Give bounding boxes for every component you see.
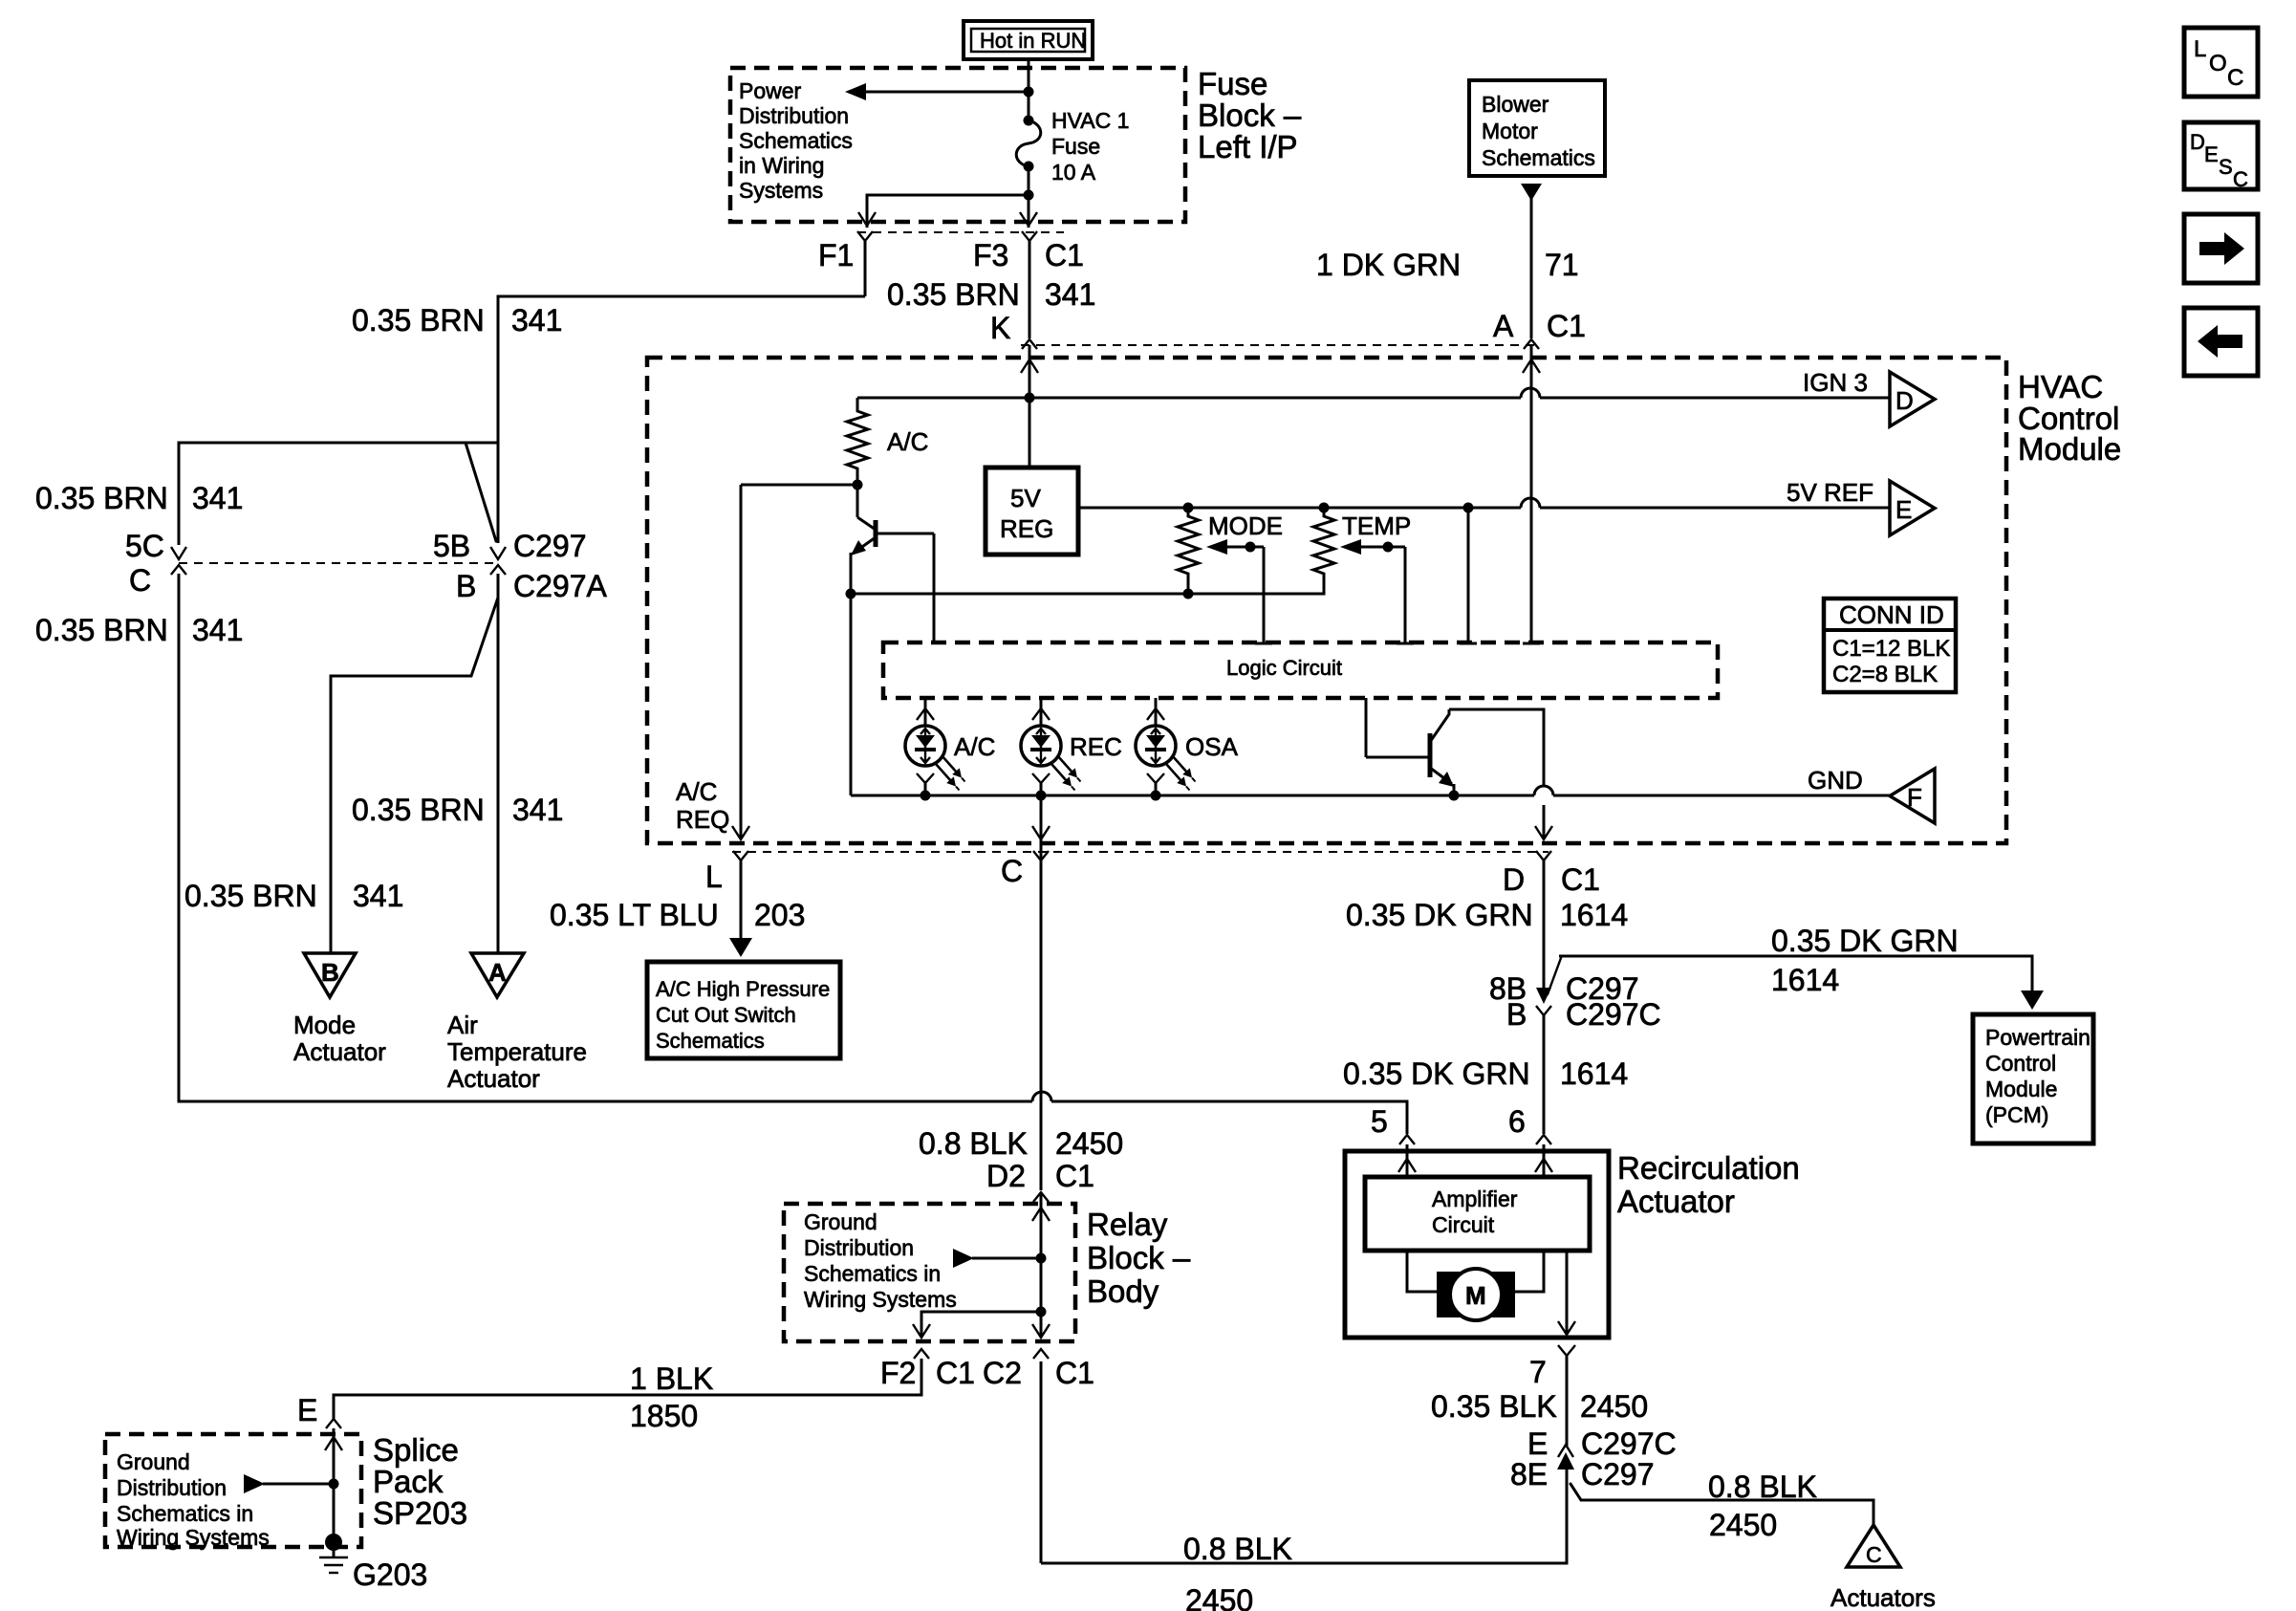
arrow into relay block [1032, 1208, 1050, 1221]
svg-text:L: L [2194, 36, 2206, 62]
svg-text:Cut Out Switch: Cut Out Switch [656, 1003, 796, 1027]
svg-text:A: A [488, 958, 507, 987]
LED REC [1021, 698, 1122, 795]
node junction on K wire [1025, 393, 1035, 403]
svg-text:Schematics: Schematics [739, 128, 853, 153]
svg-text:F3: F3 [973, 238, 1008, 272]
label Recirculation Actuator [1617, 1150, 1800, 1219]
wiper TEMP [1340, 539, 1414, 643]
svg-text:C2: C2 [983, 1356, 1022, 1390]
svg-text:Schematics in: Schematics in [117, 1501, 253, 1526]
pin D / C1 [1503, 851, 1600, 897]
svg-text:F2: F2 [880, 1356, 916, 1390]
arrow K wire entering module [1021, 359, 1038, 373]
svg-text:B: B [456, 569, 476, 603]
connector face C1 (thin dashed) [857, 231, 1064, 233]
transistor Q2 (output driver) [1366, 698, 1544, 795]
svg-text:Air: Air [447, 1011, 478, 1039]
pin C2 / C1 [983, 1349, 1094, 1390]
resistor MODE [1178, 503, 1283, 595]
svg-text:Relay: Relay [1087, 1207, 1168, 1242]
node 5V REG box [986, 468, 1078, 555]
svg-text:A/C High Pressure: A/C High Pressure [656, 977, 830, 1001]
wire 5V REF [1078, 507, 1521, 510]
svg-text:Actuator: Actuator [1617, 1184, 1735, 1219]
relay block dashed box [784, 1204, 1075, 1341]
wire into splice with arrow [325, 1428, 342, 1544]
svg-text:2450: 2450 [1055, 1126, 1123, 1161]
svg-text:0.35 LT BLU: 0.35 LT BLU [550, 898, 719, 932]
wire 5 into amplifier [1398, 1144, 1416, 1177]
svg-text:D: D [2190, 130, 2205, 154]
svg-text:Splice: Splice [373, 1432, 459, 1468]
svg-text:Left I/P: Left I/P [1198, 129, 1298, 164]
svg-text:Pack: Pack [373, 1464, 444, 1499]
svg-text:2450: 2450 [1185, 1583, 1253, 1611]
label 0.35 BRN 341 (F3 wire) [887, 277, 1095, 312]
resistor A/C [847, 398, 928, 485]
pin K chevron [1022, 339, 1037, 349]
wire through relay block [1040, 1192, 1043, 1338]
svg-text:Module: Module [1985, 1077, 2057, 1101]
svg-text:Wiring Systems: Wiring Systems [117, 1525, 270, 1550]
svg-text:B: B [321, 958, 339, 987]
svg-text:L: L [705, 860, 723, 894]
svg-text:Powertrain: Powertrain [1985, 1025, 2090, 1050]
svg-text:Control: Control [1985, 1051, 2056, 1076]
arrow F2 exit [913, 1324, 930, 1338]
svg-text:Hot in RUN: Hot in RUN [980, 29, 1086, 53]
svg-text:5V REF: 5V REF [1787, 478, 1874, 507]
arrow into A/C HP switch box [729, 938, 752, 957]
label 0.35 BRN 341 (B wire) [184, 879, 403, 913]
pin L [705, 851, 748, 894]
svg-text:1614: 1614 [1560, 898, 1628, 932]
wire diagonal into 5B [466, 443, 496, 541]
svg-text:CONN ID: CONN ID [1839, 600, 1944, 629]
wire F1 to 5B [498, 296, 865, 543]
svg-text:Block –: Block – [1087, 1240, 1191, 1275]
pin F3 / C1 [973, 231, 1084, 338]
svg-text:GND: GND [1808, 766, 1863, 795]
LED OSA [1136, 698, 1239, 795]
svg-text:K: K [990, 311, 1010, 345]
svg-text:C1: C1 [1561, 862, 1600, 897]
svg-text:5V: 5V [1010, 484, 1041, 512]
svg-text:C297: C297 [1581, 1457, 1655, 1491]
pin 5 [1371, 1104, 1415, 1144]
svg-text:A/C: A/C [887, 427, 928, 456]
node junction (A/C REQ tap) [853, 480, 863, 490]
arrow C exit [1032, 826, 1050, 839]
svg-text:2450: 2450 [1580, 1389, 1648, 1424]
pin 7 [1529, 1345, 1575, 1389]
arrow exit F1 [858, 212, 876, 226]
svg-text:Schematics: Schematics [1482, 145, 1595, 170]
svg-text:IGN 3: IGN 3 [1803, 368, 1868, 397]
node junction [1024, 87, 1034, 98]
label Relay Block - Body [1087, 1207, 1191, 1309]
svg-text:Fuse: Fuse [1198, 66, 1267, 101]
wire D output through bus hop [1543, 805, 1546, 838]
wire 5V tap to logic [1460, 503, 1477, 644]
wire 0.35 LT BLU 203 [740, 860, 743, 952]
svg-text:1 DK GRN: 1 DK GRN [1316, 248, 1461, 282]
svg-text:10 A: 10 A [1051, 160, 1096, 185]
wire 1 BLK 1850 (F2 to splice) [334, 1359, 921, 1419]
svg-text:C: C [129, 563, 151, 598]
svg-text:341: 341 [353, 879, 403, 913]
node LOC box [2184, 28, 2258, 97]
node Amplifier Circuit box [1365, 1177, 1590, 1251]
svg-text:F1: F1 [818, 238, 854, 272]
svg-text:5C: 5C [125, 529, 164, 563]
node junction (emitter / MODE-TEMP return) [846, 589, 856, 599]
svg-text:C1: C1 [1055, 1159, 1094, 1193]
pin D2 chevron [1033, 1192, 1049, 1202]
wire branch to 5C [179, 443, 498, 545]
svg-text:5B: 5B [433, 529, 470, 563]
pin E [297, 1393, 341, 1428]
pin F1 [818, 231, 873, 296]
node A/C High Pressure Cut Out Switch Schematics box [647, 962, 840, 1058]
wire GND bus [851, 795, 1534, 797]
fuse block dashed box [730, 68, 1185, 222]
label Splice Pack SP203 [373, 1432, 467, 1531]
arrow into blower box [1521, 184, 1542, 201]
svg-text:0.35 DK GRN: 0.35 DK GRN [1343, 1056, 1530, 1091]
connector face C297/C297A (thin dashed) [179, 562, 498, 564]
pin 6 [1508, 1104, 1551, 1144]
svg-text:D2: D2 [986, 1159, 1026, 1193]
svg-text:Mode: Mode [293, 1011, 356, 1039]
svg-text:HVAC 1: HVAC 1 [1051, 108, 1129, 133]
svg-text:TEMP: TEMP [1342, 512, 1411, 540]
svg-text:Blower: Blower [1482, 92, 1549, 117]
wire branch to F1 [867, 195, 1029, 228]
svg-text:A: A [1493, 309, 1514, 343]
svg-text:0.8 BLK: 0.8 BLK [1708, 1469, 1817, 1504]
wiper MODE [1206, 539, 1272, 643]
node D triangle [1890, 372, 1935, 426]
fuse F HVAC 1 10A (symbol) [1016, 108, 1129, 185]
wire triangle tap [244, 1474, 339, 1493]
svg-text:Distribution: Distribution [117, 1475, 227, 1500]
svg-text:341: 341 [1045, 277, 1095, 312]
svg-text:2450: 2450 [1709, 1508, 1777, 1542]
svg-text:C: C [1001, 854, 1023, 888]
svg-text:0.35 BRN: 0.35 BRN [35, 481, 168, 515]
splice pack dashed box [105, 1434, 361, 1547]
svg-text:0.8 BLK: 0.8 BLK [1183, 1532, 1292, 1566]
arrow C2 exit [1032, 1324, 1050, 1338]
svg-text:0.35 BRN: 0.35 BRN [352, 303, 485, 337]
label A/C REQ [676, 777, 729, 834]
label 1 DK GRN 71 [1316, 248, 1579, 282]
svg-text:OSA: OSA [1185, 732, 1239, 761]
svg-text:C297A: C297A [513, 569, 608, 603]
node junction to F2 [1036, 1307, 1047, 1317]
svg-text:D: D [1503, 862, 1525, 897]
svg-text:C1: C1 [1055, 1356, 1094, 1390]
svg-text:C297: C297 [513, 529, 587, 563]
connector face C2/C1 (thin dashed) [732, 851, 1549, 853]
label 0.35 BRN 341 (C wire) [35, 613, 243, 647]
pin F2 / C1 [880, 1349, 975, 1390]
node F triangle [1890, 769, 1935, 823]
wire A/C REQ down to L [740, 485, 743, 838]
svg-text:Body: Body [1087, 1274, 1159, 1309]
svg-text:0.35 BRN: 0.35 BRN [184, 879, 317, 913]
svg-text:M: M [1465, 1281, 1486, 1310]
wire triangle tap [953, 1249, 1047, 1268]
svg-text:REC: REC [1070, 732, 1122, 761]
label 0.8 BLK 2450 [919, 1126, 1123, 1161]
transistor Q1 (A/C request driver) [851, 485, 934, 642]
svg-text:E: E [297, 1393, 317, 1427]
svg-text:E: E [1895, 495, 1912, 524]
connector face C1 at HVAC module (thin dashed) [1021, 344, 1540, 346]
svg-text:0.35 BRN: 0.35 BRN [352, 793, 485, 827]
HVAC Control Module dashed box [647, 358, 2006, 843]
label 0.8 BLK 2450 (bottom run) [1183, 1532, 1292, 1611]
svg-text:Temperature: Temperature [447, 1037, 587, 1066]
wire C2 pin down joining bottom run [1040, 1361, 1043, 1563]
svg-text:Amplifier: Amplifier [1432, 1186, 1518, 1211]
node junction [1024, 190, 1034, 201]
svg-text:Actuators: Actuators [1830, 1583, 1936, 1611]
svg-text:341: 341 [512, 793, 563, 827]
svg-text:REQ: REQ [676, 805, 729, 834]
wire below fuse [1028, 166, 1030, 228]
label HVAC Control Module [2018, 369, 2121, 467]
svg-text:E: E [2204, 142, 2219, 166]
svg-text:Actuator: Actuator [293, 1037, 386, 1066]
node Blower Motor Schematics box [1469, 80, 1605, 176]
svg-text:Ground: Ground [117, 1449, 190, 1474]
svg-text:Ground: Ground [804, 1209, 877, 1234]
svg-text:Distribution: Distribution [739, 103, 849, 128]
svg-text:71: 71 [1545, 248, 1579, 282]
svg-text:A/C: A/C [954, 732, 995, 761]
wire branch to actuators C triangle [1570, 1484, 1874, 1527]
svg-text:Circuit: Circuit [1432, 1212, 1495, 1237]
svg-text:E: E [1527, 1426, 1548, 1461]
label 0.35 BRN 341 (A wire) [352, 793, 563, 827]
arrow exit F3 [1020, 212, 1037, 226]
svg-text:SP203: SP203 [373, 1495, 467, 1531]
svg-text:Distribution: Distribution [804, 1235, 914, 1260]
node A triangle (Air Temperature Actuator) [447, 953, 587, 1093]
svg-text:REG: REG [1000, 514, 1053, 543]
note Ground Distribution Schematics in Wiring Systems [804, 1209, 957, 1312]
svg-text:C297C: C297C [1581, 1426, 1677, 1461]
wire arrow left to Power Distribution [845, 83, 1029, 100]
svg-text:Recirculation: Recirculation [1617, 1150, 1800, 1186]
svg-text:Motor: Motor [1482, 119, 1538, 143]
wire 6 into amplifier [1535, 1144, 1552, 1177]
svg-text:203: 203 [754, 898, 805, 932]
svg-text:S: S [2219, 155, 2233, 179]
label 0.35 BRN 341 (5C wire) [35, 481, 243, 515]
resistor TEMP [1313, 503, 1411, 584]
svg-text:Schematics: Schematics [656, 1029, 765, 1053]
svg-text:0.35 BLK: 0.35 BLK [1431, 1389, 1557, 1424]
wire 0.35 DK GRN 1614 (D to 8B) [1543, 860, 1546, 991]
wire K to 5V REG [1029, 345, 1031, 468]
svg-text:A/C: A/C [676, 777, 717, 806]
actuator outer box [1345, 1151, 1609, 1338]
node Hot in RUN (double box) [964, 21, 1093, 59]
arrow L exit [732, 826, 749, 839]
svg-text:in Wiring: in Wiring [739, 153, 824, 178]
wire IGN 3 [857, 397, 1521, 400]
wire branch to mode actuator [331, 598, 498, 953]
node junctions on bus [921, 791, 931, 801]
wire MODE/TEMP bottom return [851, 583, 1324, 594]
svg-text:O: O [2209, 51, 2227, 76]
note Ground Distribution Schematics in Wiring Systems [117, 1449, 270, 1550]
svg-text:Wiring Systems: Wiring Systems [804, 1287, 957, 1312]
wire 1 DK GRN 71 [1530, 196, 1533, 338]
pin A / C1 [1493, 309, 1586, 349]
svg-text:1850: 1850 [630, 1399, 698, 1433]
node junction MODE bottom [1183, 589, 1194, 599]
svg-text:C1=12 BLK: C1=12 BLK [1832, 636, 1950, 662]
wire blower A input to logic (with hops) [1523, 345, 1540, 643]
ground G203 [319, 1534, 427, 1592]
svg-text:Actuator: Actuator [447, 1064, 540, 1093]
svg-text:Fuse: Fuse [1051, 134, 1100, 159]
svg-text:341: 341 [511, 303, 562, 337]
svg-text:Module: Module [2018, 431, 2121, 467]
logic circuit dashed box [883, 642, 1718, 698]
svg-text:6: 6 [1508, 1104, 1526, 1139]
svg-text:1614: 1614 [1560, 1056, 1628, 1091]
svg-text:C: C [2227, 65, 2243, 91]
svg-text:C1: C1 [1547, 309, 1586, 343]
svg-text:Logic Circuit: Logic Circuit [1226, 656, 1342, 680]
label D2 C1 [986, 1159, 1094, 1193]
pin 5B / B [433, 529, 608, 603]
pin 8B / B C297/C297C [1489, 971, 1661, 1032]
svg-text:341: 341 [192, 481, 243, 515]
wire 0.35 DK GRN 1614 (B to 6) [1543, 1015, 1546, 1134]
svg-text:Schematics in: Schematics in [804, 1261, 941, 1286]
svg-text:MODE: MODE [1208, 512, 1283, 540]
svg-text:1 BLK: 1 BLK [630, 1361, 713, 1396]
svg-text:0.35 DK GRN: 0.35 DK GRN [1346, 898, 1533, 932]
pin 5C / C [125, 529, 186, 598]
CONN ID table [1824, 599, 1956, 692]
svg-text:(PCM): (PCM) [1985, 1102, 2048, 1127]
svg-text:C2=8 BLK: C2=8 BLK [1832, 662, 1938, 687]
svg-text:7: 7 [1529, 1355, 1547, 1389]
svg-text:0.35 DK GRN: 0.35 DK GRN [1771, 924, 1959, 958]
svg-text:C: C [1866, 1542, 1882, 1567]
wire to pin 5 [1051, 1101, 1407, 1134]
svg-text:C: C [2233, 167, 2248, 191]
svg-text:HVAC: HVAC [2018, 369, 2103, 404]
svg-text:C297C: C297C [1566, 997, 1661, 1032]
wire 8E down to bottom run [1041, 1467, 1567, 1563]
svg-text:B: B [1506, 997, 1527, 1032]
svg-text:5: 5 [1371, 1104, 1388, 1139]
wire B to air temperature actuator [497, 574, 500, 953]
note Power Distribution Schematics in Wiring Systems [739, 78, 853, 203]
motor M [1407, 1251, 1544, 1320]
svg-text:D: D [1895, 386, 1914, 415]
wire hop over C wire [1032, 1092, 1051, 1101]
wire branch to F2 [921, 1312, 1041, 1338]
wire A/C REQ horizontal [741, 484, 857, 487]
node prev-arrow box [2184, 308, 2258, 376]
svg-text:Systems: Systems [739, 178, 823, 203]
label 0.35 BRN 341 [352, 303, 562, 337]
wire 0.35 BLK 2450 [1566, 1356, 1569, 1448]
wire C down to relay block [1040, 795, 1043, 1190]
node B triangle (Mode Actuator) [293, 953, 386, 1066]
arrow D exit [1535, 826, 1552, 839]
label Fuse Block - Left I/P [1198, 66, 1302, 164]
node E triangle [1890, 481, 1935, 535]
svg-text:F: F [1907, 783, 1922, 812]
wire emitter to LED bus [850, 594, 853, 795]
svg-text:0.8 BLK: 0.8 BLK [919, 1126, 1028, 1161]
svg-text:Power: Power [739, 78, 802, 103]
node next-arrow box [2184, 214, 2258, 283]
svg-text:Block –: Block – [1198, 98, 1302, 133]
svg-text:0.35 BRN: 0.35 BRN [35, 613, 168, 647]
node C triangle (Actuators) [1830, 1525, 1936, 1611]
svg-text:1614: 1614 [1771, 963, 1839, 997]
node DESC box [2184, 122, 2258, 191]
svg-text:G203: G203 [353, 1557, 427, 1592]
svg-text:8E: 8E [1510, 1457, 1548, 1491]
svg-text:341: 341 [192, 613, 243, 647]
svg-text:0.35 BRN: 0.35 BRN [887, 277, 1020, 312]
wire motor return to 7 [1558, 1251, 1575, 1335]
wire C down and to recirculation 5 [179, 574, 1032, 1101]
pin C [1001, 851, 1049, 888]
node Powertrain Control Module (PCM) box [1973, 1014, 2093, 1143]
pin E / 8E C297C/C297 [1510, 1426, 1677, 1491]
svg-text:C1: C1 [936, 1356, 975, 1390]
wire from Hot in RUN down [1028, 59, 1030, 120]
svg-text:C1: C1 [1045, 238, 1084, 272]
LED A/C [905, 698, 995, 795]
wire branch to PCM [1548, 958, 1561, 994]
